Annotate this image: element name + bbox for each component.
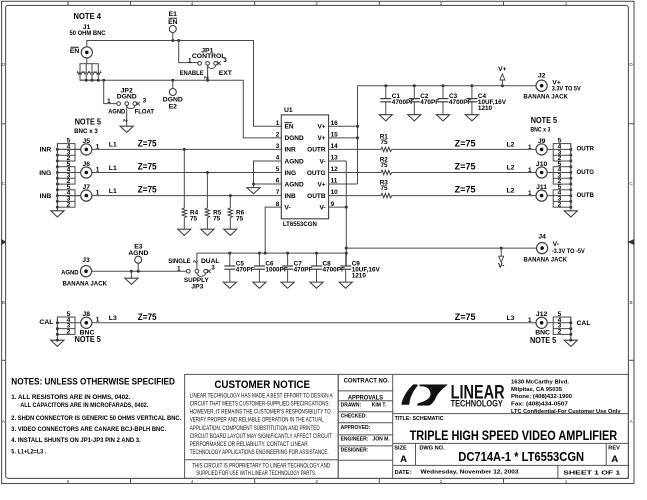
svg-text:1: 1	[107, 98, 111, 105]
svg-text:A: A	[400, 454, 407, 465]
svg-text:2: 2	[67, 201, 71, 208]
svg-text:1: 1	[96, 166, 100, 173]
svg-text:3: 3	[143, 97, 147, 104]
ground J12 shield	[564, 340, 577, 346]
ground below JP2	[120, 126, 133, 132]
connector J1 50-ohm BNC	[81, 47, 92, 58]
svg-text:FLOAT: FLOAT	[135, 108, 155, 115]
svg-text:VERIFY PROPER AND RELIABLE OPE: VERIFY PROPER AND RELIABLE OPERATION IN …	[190, 417, 324, 424]
svg-text:75: 75	[381, 162, 389, 169]
svg-text:NOTES: UNLESS OTHERWISE SPECI: NOTES: UNLESS OTHERWISE SPECIFIED	[11, 376, 175, 386]
svg-text:SHEET 1 OF 1: SHEET 1 OF 1	[563, 471, 620, 477]
ground AGND row	[130, 271, 132, 278]
svg-text:CHECKED:: CHECKED:	[341, 414, 368, 420]
svg-text:INB: INB	[40, 193, 52, 200]
J8 shield bus	[56, 317, 58, 340]
connector J8 BNC	[81, 317, 92, 328]
svg-text:NOTE 5: NOTE 5	[75, 116, 101, 126]
svg-text:CUSTOMER NOTICE: CUSTOMER NOTICE	[214, 379, 310, 391]
svg-text:NOTE 5: NOTE 5	[530, 335, 556, 345]
connector J10 BNC	[536, 167, 547, 178]
connector J12 shield pins	[553, 317, 571, 334]
svg-text:L1: L1	[109, 188, 117, 195]
svg-text:J2: J2	[538, 72, 546, 79]
connector J6 BNC shield pins	[57, 167, 75, 184]
svg-text:2: 2	[121, 119, 127, 122]
connector J2 banana jack	[536, 80, 547, 91]
capacitor C5 470PF	[229, 253, 231, 266]
J12 shield bus	[570, 317, 572, 340]
capacitor C3 4700PF	[442, 86, 444, 99]
svg-text:AGND: AGND	[61, 270, 79, 277]
svg-text:3: 3	[276, 143, 280, 150]
svg-text:1210: 1210	[352, 272, 367, 279]
svg-text:75: 75	[190, 215, 198, 222]
resistor R6 75	[229, 196, 231, 208]
svg-text:INB: INB	[285, 193, 297, 200]
svg-text:L1: L1	[109, 142, 117, 149]
ground below R6	[224, 229, 237, 235]
svg-text:3. VIDEO CONNECTORS ARE CANAR: 3. VIDEO CONNECTORS ARE CANARE BCJ-BPLH …	[11, 426, 166, 433]
ground J8 shield	[51, 340, 64, 346]
ground below R4	[178, 229, 191, 235]
svg-text:J10: J10	[536, 161, 548, 168]
svg-text:U1: U1	[284, 107, 293, 114]
svg-text:BNC x 3: BNC x 3	[530, 126, 550, 133]
wire U1 pin8 V- down to rail	[265, 207, 281, 253]
capacitor C1 4700PF	[385, 86, 387, 99]
svg-text:EN: EN	[70, 48, 80, 55]
svg-text:1210: 1210	[478, 105, 493, 112]
svg-text:J4: J4	[538, 234, 546, 241]
svg-text:1: 1	[188, 57, 192, 64]
svg-text:Z=75: Z=75	[138, 185, 157, 195]
wire JP1 pin2 down to DGND bus	[207, 65, 209, 80]
svg-text:APPLICATION. COMPONENT SUBST: APPLICATION. COMPONENT SUBSTITUTION AND …	[190, 425, 320, 432]
svg-text:TITLE: SCHEMATIC: TITLE: SCHEMATIC	[395, 416, 444, 422]
title block left column	[392, 374, 394, 478]
capacitor C2 470PF	[413, 86, 415, 99]
junction R4 tap	[183, 148, 186, 151]
connector J9 BNC shield pins	[553, 144, 571, 161]
svg-text:DC714A-1 * LT6553CGN: DC714A-1 * LT6553CGN	[458, 449, 584, 464]
svg-text:1: 1	[528, 317, 532, 324]
svg-text:AGND: AGND	[108, 108, 125, 115]
svg-text:2: 2	[440, 1, 443, 6]
svg-text:ING: ING	[285, 170, 297, 177]
border zone ticks left	[2, 123, 6, 125]
connector J12 BNC	[536, 317, 547, 328]
svg-text:CAL: CAL	[39, 319, 53, 326]
connector J11 BNC shield pins	[553, 190, 571, 207]
svg-text:1. ALL RESISTORS ARE IN OHMS: 1. ALL RESISTORS ARE IN OHMS, 0402.	[11, 394, 130, 401]
svg-text:4: 4	[191, 479, 194, 484]
svg-text:TECHNOLOGY: TECHNOLOGY	[451, 399, 503, 409]
svg-text:1: 1	[565, 479, 568, 484]
svg-text:V+: V+	[317, 124, 325, 131]
svg-text:V+: V+	[317, 135, 325, 142]
svg-text:DGND: DGND	[117, 93, 137, 100]
wire V- rail to J4	[346, 247, 536, 249]
svg-text:EN: EN	[168, 19, 178, 26]
svg-text:2: 2	[192, 260, 198, 263]
svg-text:V-: V-	[319, 204, 325, 211]
op-amp U1 LT6553CGN body	[281, 115, 328, 219]
svg-text:3: 3	[315, 1, 318, 6]
svg-text:DGND: DGND	[285, 135, 304, 142]
resistor R1 75	[381, 147, 392, 151]
svg-text:NOTE 5: NOTE 5	[531, 115, 557, 125]
svg-text:CIRCUIT BOARD LAYOUT MAY SIGNI: CIRCUIT BOARD LAYOUT MAY SIGNIFICANTLY A…	[190, 433, 332, 440]
svg-text:L3: L3	[507, 315, 515, 322]
junction AGND	[252, 183, 255, 186]
svg-text:DESIGNER:: DESIGNER:	[341, 448, 369, 454]
svg-text:Z=75: Z=75	[455, 185, 476, 195]
svg-text:L3: L3	[109, 315, 117, 322]
date row	[557, 465, 559, 478]
junction V- arrow tap	[500, 247, 503, 250]
output shield ground bus	[570, 144, 572, 211]
svg-text:NOTE 4: NOTE 4	[74, 11, 102, 21]
svg-text:INR: INR	[285, 147, 297, 154]
svg-text:4700PF: 4700PF	[392, 99, 414, 106]
svg-text:BANANA JACK: BANANA JACK	[524, 256, 568, 263]
svg-text:SINGLE: SINGLE	[168, 258, 191, 265]
turret E3 AGND	[137, 263, 139, 271]
border zone ticks top	[130, 1, 132, 5]
svg-text:PERFORMANCE OR RELIABILITY.: PERFORMANCE OR RELIABILITY. CONTACT LINE…	[190, 441, 308, 448]
connector J4 banana jack	[537, 243, 548, 254]
svg-text:V+: V+	[498, 66, 507, 73]
capacitor C6 1000PF	[258, 253, 260, 266]
svg-text:75: 75	[213, 215, 221, 222]
wire ING row: J6 to U1 pin5	[57, 172, 281, 174]
svg-text:AGND: AGND	[128, 250, 148, 257]
svg-text:1: 1	[96, 317, 100, 324]
wire OUTG row: U1 pin12 to J10	[329, 172, 381, 174]
svg-text:B: B	[630, 300, 633, 305]
svg-text:75: 75	[381, 185, 389, 192]
svg-text:1: 1	[565, 1, 568, 6]
junction R5 tap	[206, 171, 209, 174]
svg-text:J6: J6	[83, 161, 91, 168]
svg-text:TECHNOLOGY APPLICATIONS ENGINE: TECHNOLOGY APPLICATIONS ENGINEERING FOR …	[190, 449, 329, 456]
svg-text:4. INSTALL SHUNTS ON JP1-JP3: 4. INSTALL SHUNTS ON JP1-JP3 PIN 2 AND 3…	[11, 437, 141, 444]
connector J9 BNC	[536, 144, 547, 155]
size / dwg / rev row	[415, 443, 417, 465]
connector J7 BNC shield pins	[57, 190, 75, 207]
svg-text:J11: J11	[536, 184, 547, 191]
svg-text:Wednesday, November 12, 2003: Wednesday, November 12, 2003	[421, 469, 520, 475]
customer notice box	[185, 374, 339, 478]
wire OUTR row: U1 pin14 to J9	[329, 148, 381, 150]
svg-text:Z=75: Z=75	[455, 162, 476, 172]
connector J5 BNC shield pins	[57, 144, 75, 161]
resistor R5 75	[206, 173, 208, 209]
resistor R2 75	[381, 170, 392, 174]
connector J6 BNC	[81, 167, 92, 178]
svg-text:3: 3	[223, 57, 227, 64]
capacitor C4 10UF,16V	[471, 86, 473, 99]
svg-text:1: 1	[96, 190, 100, 197]
node JP1 branch junction	[177, 39, 180, 42]
turret E1	[172, 33, 174, 41]
svg-text:OUTG: OUTG	[577, 169, 595, 176]
ground below R5	[201, 229, 214, 235]
svg-text:OUTR: OUTR	[307, 147, 326, 154]
svg-text:JON M.: JON M.	[373, 437, 391, 443]
connector J8 shield pins	[57, 317, 75, 334]
svg-text:75: 75	[381, 139, 389, 146]
wire V+ rail	[358, 85, 537, 87]
svg-text:J9: J9	[538, 138, 546, 145]
connector J11 BNC	[536, 190, 547, 201]
connector J10 BNC shield pins	[553, 167, 571, 184]
svg-text:CAL: CAL	[577, 320, 591, 327]
wire OUTB row: U1 pin10 to J11	[329, 195, 381, 197]
wire AGND row J3 to JP3	[92, 270, 187, 272]
power symbol V+ arrow	[501, 80, 503, 86]
wire V+ vertical (pins 16,15,11)	[329, 125, 358, 127]
svg-text:ENABLE: ENABLE	[180, 70, 204, 77]
svg-text:CONTRACT NO.: CONTRACT NO.	[344, 377, 390, 384]
svg-text:2. SHDN CONNECTOR IS GENERIC: 2. SHDN CONNECTOR IS GENERIC 50 OHMS VER…	[11, 415, 181, 422]
capacitor C7 470PF	[287, 253, 289, 266]
svg-text:4700PF: 4700PF	[449, 99, 471, 106]
svg-text:EN: EN	[285, 124, 294, 131]
svg-text:REV: REV	[608, 445, 620, 451]
svg-text:2: 2	[558, 329, 562, 336]
svg-text:5: 5	[67, 479, 70, 484]
svg-text:OUTB: OUTB	[307, 193, 326, 200]
border zone ticks bottom	[130, 478, 132, 483]
svg-text:DATE:: DATE:	[395, 470, 412, 476]
svg-text:J3: J3	[82, 257, 90, 264]
svg-text:E2: E2	[169, 104, 178, 111]
svg-text:L2: L2	[507, 188, 515, 195]
svg-text:Z=75: Z=75	[138, 162, 157, 172]
svg-text:1: 1	[96, 143, 100, 150]
svg-text:1: 1	[276, 120, 280, 127]
junction dots on DGND bus	[85, 79, 88, 82]
svg-text:Fax: (408)434-0507: Fax: (408)434-0507	[511, 402, 568, 408]
svg-text:4: 4	[191, 1, 194, 6]
junction E3 tap	[137, 270, 140, 273]
svg-text:1630 McCarthy Blvd.: 1630 McCarthy Blvd.	[511, 380, 569, 386]
svg-text:TRIPLE HIGH SPEED VIDEO AMPLIF: TRIPLE HIGH SPEED VIDEO AMPLIFIER	[410, 428, 618, 444]
capacitor C9 10UF,16V	[345, 253, 347, 266]
svg-text:ALL CAPACITORS ARE IN MICROFAR: ALL CAPACITORS ARE IN MICROFARADS, 0402.	[20, 402, 148, 409]
svg-text:1: 1	[177, 266, 181, 273]
svg-text:SIZE: SIZE	[394, 445, 407, 451]
svg-text:Milpitas, CA 95035: Milpitas, CA 95035	[511, 387, 563, 393]
svg-text:DGND: DGND	[163, 96, 183, 103]
svg-text:NOTE 5: NOTE 5	[75, 334, 101, 344]
svg-text:J7: J7	[83, 184, 91, 191]
svg-text:1: 1	[528, 144, 532, 151]
svg-text:KIM T.: KIM T.	[372, 403, 387, 409]
input shield ground bus	[56, 144, 58, 211]
svg-text:3: 3	[315, 479, 318, 484]
capacitor C8 4700PF	[316, 253, 318, 266]
svg-text:SUPPLIED FOR USE WITH LINEAR T: SUPPLIED FOR USE WITH LINEAR TECHNOLOGY …	[196, 470, 316, 477]
svg-text:L2: L2	[507, 165, 515, 172]
connector J7 BNC	[81, 190, 92, 201]
svg-text:2: 2	[67, 329, 71, 336]
svg-text:5: 5	[276, 166, 280, 173]
svg-text:LT6553CGN: LT6553CGN	[283, 221, 317, 228]
junction ground tap	[130, 270, 133, 273]
ground output shield bus	[564, 211, 577, 217]
title rows	[393, 413, 629, 415]
wire U1 pin4 AGND loop	[254, 161, 282, 184]
svg-text:CIRCUIT THAT MEETS CUSTOMER-SU: CIRCUIT THAT MEETS CUSTOMER-SUPPLIED SPE…	[190, 400, 330, 407]
svg-text:Z=75: Z=75	[455, 139, 476, 149]
svg-text:1: 1	[528, 190, 532, 197]
svg-text:Z=75: Z=75	[455, 312, 476, 322]
svg-text:7: 7	[276, 189, 280, 196]
wire V- vertical (pins 13,9) down to V- rail and C9	[329, 160, 347, 162]
svg-text:3.3V TO 5V: 3.3V TO 5V	[552, 85, 581, 92]
svg-text:2: 2	[558, 201, 562, 208]
svg-text:1000PF: 1000PF	[265, 266, 287, 273]
svg-text:V-: V-	[285, 204, 291, 211]
svg-text:J5: J5	[83, 138, 91, 145]
title block outline	[338, 374, 628, 478]
svg-text:470PF: 470PF	[294, 266, 313, 273]
wire JP2 pin2 to ground	[126, 106, 128, 127]
svg-text:1: 1	[528, 167, 532, 174]
LTC logo	[402, 385, 418, 405]
svg-text:OUTG: OUTG	[307, 170, 326, 177]
svg-text:APPROVED:: APPROVED:	[341, 425, 371, 431]
svg-text:2: 2	[202, 76, 208, 79]
svg-text:2: 2	[440, 479, 443, 484]
svg-text:V-: V-	[319, 158, 325, 165]
svg-text:JP3: JP3	[191, 283, 203, 290]
wire INB row: J7 to U1 pin7	[57, 195, 281, 197]
resistor R3 75	[381, 193, 392, 197]
svg-text:HOWEVER, IT REMAINS THE CUSTOM: HOWEVER, IT REMAINS THE CUSTOMER’S RESPO…	[190, 409, 331, 416]
svg-text:Z=75: Z=75	[138, 139, 157, 149]
svg-text:AGND: AGND	[285, 158, 304, 165]
wire J1 to resistor network	[86, 58, 88, 64]
svg-text:V-: V-	[498, 263, 504, 270]
svg-text:ING: ING	[39, 170, 51, 177]
svg-text:INR: INR	[40, 147, 52, 154]
wire V- cap rail	[197, 252, 346, 254]
svg-text:75: 75	[236, 215, 244, 222]
svg-text:LINEAR TECHNOLOGY HAS MADE A B: LINEAR TECHNOLOGY HAS MADE A BEST EFFORT…	[190, 392, 334, 399]
svg-text:J8: J8	[83, 311, 91, 318]
junction R6 tap	[229, 194, 232, 197]
svg-text:L2: L2	[507, 142, 515, 149]
svg-text:470PF: 470PF	[236, 266, 255, 273]
svg-text:DWG NO.: DWG NO.	[419, 445, 445, 451]
svg-text:DUAL: DUAL	[201, 258, 220, 265]
node E1 junction	[171, 39, 174, 42]
svg-text:Phone: (408)432-1900: Phone: (408)432-1900	[511, 394, 572, 400]
svg-text:BANANA JACK: BANANA JACK	[523, 94, 568, 101]
svg-text:A: A	[611, 454, 618, 465]
svg-text:OUTB: OUTB	[577, 192, 595, 199]
svg-text:CONTROL: CONTROL	[192, 53, 226, 60]
svg-text:THIS CIRCUIT IS PROPRIETARY TO: THIS CIRCUIT IS PROPRIETARY TO LINEAR TE…	[192, 463, 330, 470]
svg-text:5. L1+L2=L3 .: 5. L1+L2=L3 .	[11, 448, 46, 455]
connector J3 banana jack	[80, 266, 91, 277]
resistor R4 75	[183, 149, 185, 208]
svg-text:EXT: EXT	[219, 70, 233, 77]
svg-text:OUTR: OUTR	[577, 146, 595, 153]
svg-text:BANANA JACK: BANANA JACK	[63, 281, 108, 288]
svg-text:E1: E1	[169, 11, 178, 18]
svg-text:5: 5	[67, 1, 70, 6]
svg-text:APPROVALS: APPROVALS	[348, 395, 384, 402]
svg-text:BNC x 3: BNC x 3	[74, 128, 98, 135]
svg-text:470PF: 470PF	[420, 99, 439, 106]
wire DGND bus to U1 pin2	[80, 80, 281, 138]
wire JP1 pin1 branch	[179, 41, 198, 63]
svg-text:L1: L1	[109, 165, 117, 172]
svg-text:ENGINEER:: ENGINEER:	[341, 437, 369, 443]
ground U1 AGND	[253, 184, 255, 188]
svg-text:AGND: AGND	[285, 181, 304, 188]
wire EN net: J1 top to U1 pin1	[87, 41, 281, 127]
wire INR row: J5 to U1 pin3	[57, 148, 281, 150]
svg-text:3: 3	[211, 264, 215, 271]
border zone ticks right	[628, 123, 633, 125]
svg-text:DRAWN:: DRAWN:	[341, 403, 362, 409]
wire CAL row J8 to J12	[92, 322, 536, 324]
svg-text:B: B	[2, 300, 5, 305]
svg-text:50 OHM BNC: 50 OHM BNC	[70, 30, 106, 37]
wire JP3 pin2 up to V- cap rail	[196, 253, 198, 269]
svg-text:Z=75: Z=75	[138, 312, 157, 322]
svg-text:V+: V+	[317, 181, 325, 188]
resistor network RN1 (4x packaged)	[80, 64, 98, 80]
svg-text:2: 2	[276, 131, 280, 138]
connector J5 BNC	[81, 144, 92, 155]
turret E2 DGND	[172, 80, 174, 88]
svg-text:-3.3V TO -5V: -3.3V TO -5V	[552, 248, 585, 255]
power symbol V- arrow	[500, 248, 502, 256]
svg-text:4700PF: 4700PF	[323, 266, 345, 273]
ground input shield bus	[51, 211, 64, 217]
wire JP2 branch	[104, 80, 117, 103]
svg-text:J12: J12	[536, 311, 548, 318]
